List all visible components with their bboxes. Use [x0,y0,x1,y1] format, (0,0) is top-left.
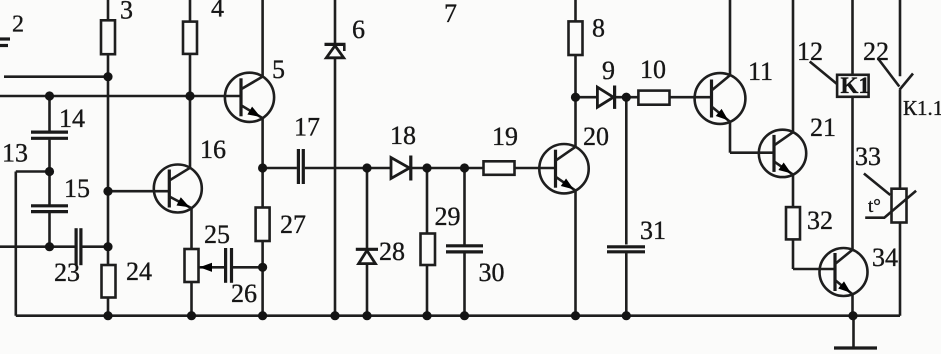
svg-text:6: 6 [352,15,365,44]
svg-text:17: 17 [294,113,320,142]
svg-text:12: 12 [797,37,823,66]
svg-text:7: 7 [444,0,457,28]
svg-text:30: 30 [479,258,505,287]
svg-text:3: 3 [120,0,133,25]
svg-text:32: 32 [807,206,833,235]
svg-text:29: 29 [435,202,461,231]
svg-text:13: 13 [2,139,28,168]
svg-text:t°: t° [868,196,881,217]
svg-text:33: 33 [855,142,881,171]
svg-text:K1: K1 [841,73,870,98]
svg-text:2: 2 [12,12,24,38]
svg-text:20: 20 [583,122,609,151]
svg-text:31: 31 [640,216,666,245]
svg-text:28: 28 [379,237,405,266]
svg-text:15: 15 [64,174,90,203]
svg-text:19: 19 [492,122,518,151]
svg-text:23: 23 [54,258,80,287]
svg-text:11: 11 [748,57,773,86]
svg-text:27: 27 [280,210,306,239]
svg-text:18: 18 [390,121,416,150]
svg-text:26: 26 [231,279,257,308]
svg-text:8: 8 [592,14,605,43]
svg-text:5: 5 [272,55,285,84]
svg-text:16: 16 [200,135,226,164]
svg-text:4: 4 [211,0,224,23]
svg-text:34: 34 [872,243,898,272]
svg-text:25: 25 [204,220,230,249]
svg-text:22: 22 [863,37,889,66]
svg-text:21: 21 [810,113,836,142]
svg-text:14: 14 [59,104,85,133]
svg-text:24: 24 [126,257,152,286]
svg-text:10: 10 [640,55,666,84]
svg-text:К1.1: К1.1 [903,96,941,120]
svg-text:9: 9 [602,56,615,85]
